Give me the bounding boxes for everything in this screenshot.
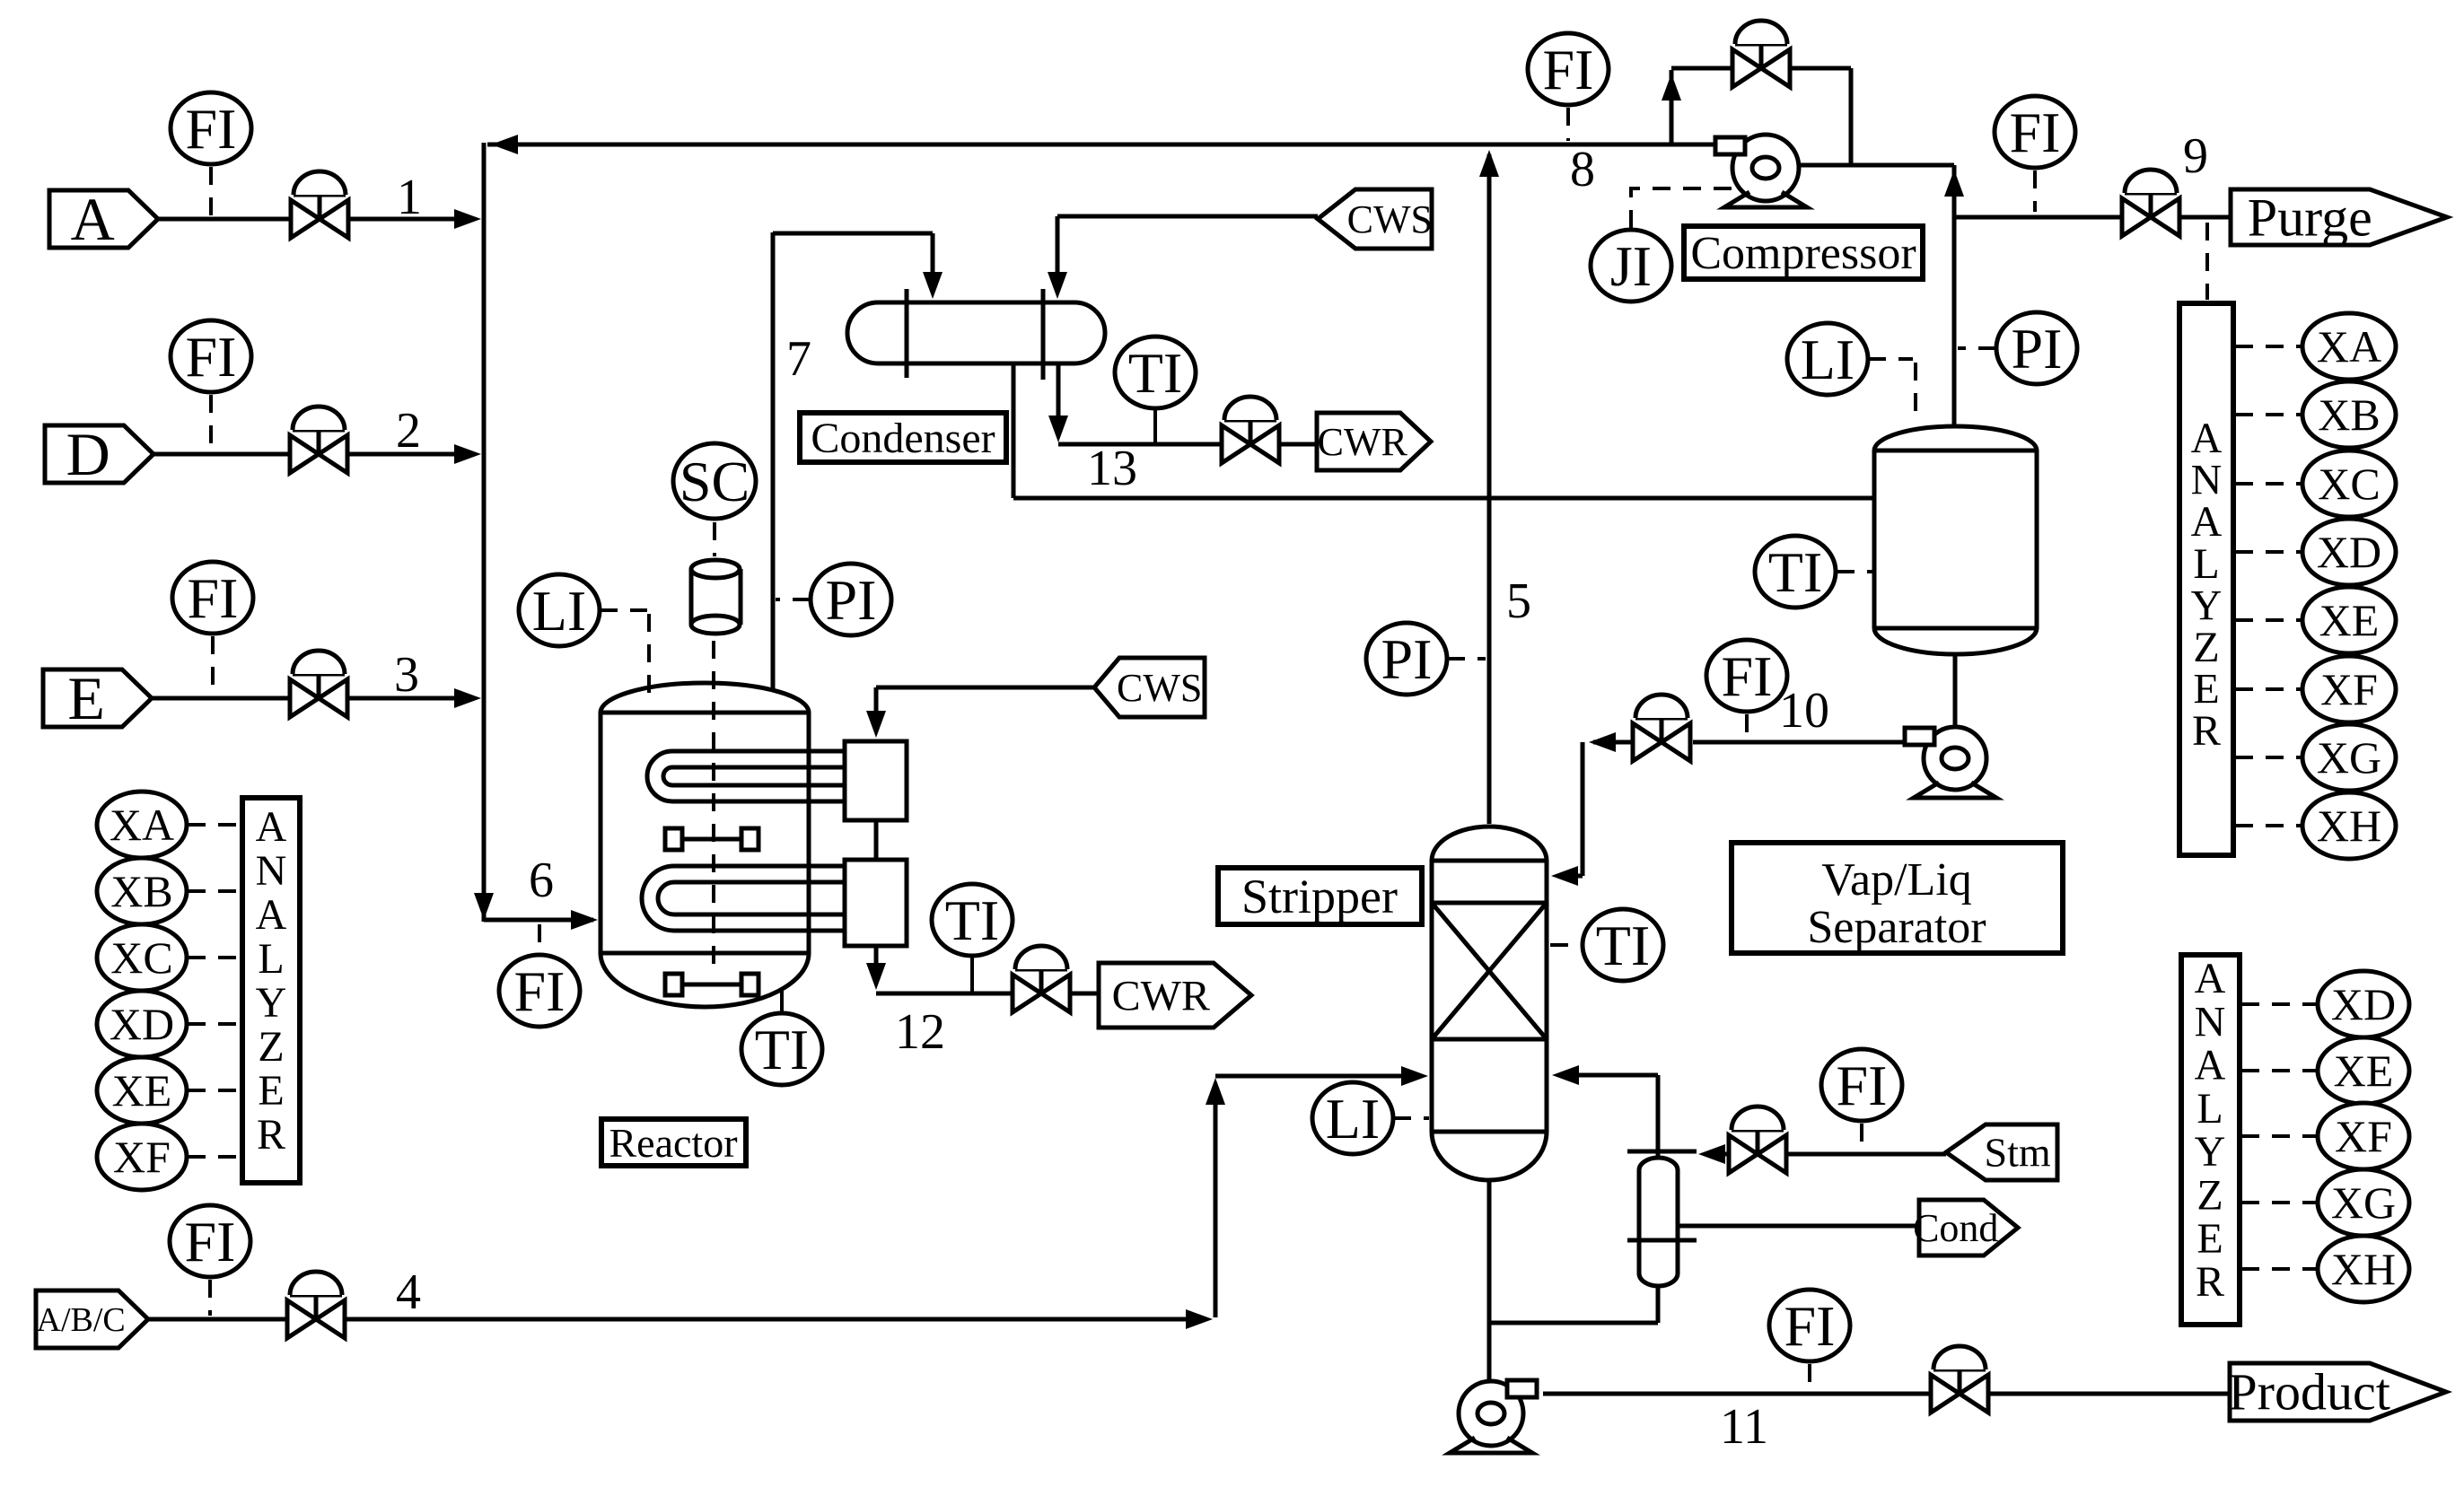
tag Stm <box>1946 1124 2057 1180</box>
svg-text:R: R <box>257 1111 285 1159</box>
svg-text:JI: JI <box>1610 234 1652 298</box>
instrument TI (separator) <box>1755 536 1836 608</box>
reactor cooling box upper <box>845 741 907 820</box>
svg-text:FI: FI <box>185 1210 236 1273</box>
wire SC tick <box>713 522 716 556</box>
wire JI dashes <box>1631 188 1735 228</box>
wire stripper bottoms <box>1487 1180 1492 1381</box>
label box Condenser <box>800 413 1006 462</box>
reactor agitator bottom <box>665 974 758 995</box>
instrument XH (purge analyzer) <box>2302 792 2396 859</box>
svg-text:XH: XH <box>2331 1244 2396 1294</box>
instrument XD (purge analyzer) <box>2302 519 2396 585</box>
bottom analyzer box (product) <box>2181 955 2240 1325</box>
label stream 3 <box>394 647 419 703</box>
wire TI-12 tick <box>970 956 974 992</box>
wire feed A to header <box>349 209 481 229</box>
left analyzer box <box>242 798 300 1183</box>
wire valve to CWR tag <box>1071 992 1099 996</box>
svg-text:FI: FI <box>188 566 239 630</box>
svg-text:A: A <box>2195 1042 2226 1089</box>
wire LI-sep dashes <box>1868 359 1916 422</box>
instrument FI (feed E) <box>172 562 253 634</box>
label stream 9 <box>2183 128 2208 184</box>
wire XB purge dash <box>2235 413 2301 416</box>
wire FI-10 tick <box>1745 714 1749 739</box>
instrument TI (reactor bottom) <box>741 1013 822 1085</box>
wire PI-reactor dashes <box>776 598 811 601</box>
svg-text:XE: XE <box>2319 595 2380 645</box>
svg-text:TI: TI <box>1768 540 1822 604</box>
wire FI-E tick <box>211 636 215 693</box>
wire bypass top left <box>1671 66 1732 71</box>
svg-text:N: N <box>256 847 287 895</box>
compressor symbol <box>1715 135 1807 207</box>
svg-text:XE: XE <box>112 1065 172 1115</box>
svg-text:XB: XB <box>110 866 172 916</box>
svg-text:Vap/Liq: Vap/Liq <box>1821 854 1972 905</box>
svg-text:FI: FI <box>186 97 237 161</box>
wire XE purge dash <box>2235 618 2301 622</box>
instrument XA (purge analyzer) <box>2302 313 2396 380</box>
instrument XB (purge analyzer) <box>2302 381 2396 448</box>
svg-text:XB: XB <box>2318 389 2380 440</box>
svg-text:TI: TI <box>755 1018 809 1081</box>
label stream 6 <box>529 853 554 908</box>
svg-text:3: 3 <box>394 647 419 703</box>
wire XD dash <box>188 1022 241 1026</box>
svg-text:FI: FI <box>1784 1294 1836 1358</box>
svg-text:Reactor: Reactor <box>609 1120 737 1166</box>
svg-text:7: 7 <box>786 331 811 387</box>
svg-text:FI: FI <box>1543 38 1594 101</box>
svg-text:XF: XF <box>2335 1111 2392 1161</box>
svg-text:R: R <box>2192 707 2221 755</box>
svg-text:E: E <box>2197 1215 2223 1263</box>
pump separator bottoms <box>1905 727 1996 798</box>
svg-text:FI: FI <box>1837 1054 1888 1117</box>
pump stripper bottoms <box>1450 1380 1537 1453</box>
wire XG product dash <box>2241 1201 2316 1204</box>
wire XH purge dash <box>2235 824 2301 827</box>
wire valve to CWR tag <box>1280 442 1317 447</box>
svg-text:XD: XD <box>2331 979 2396 1029</box>
svg-text:A: A <box>71 185 115 253</box>
svg-text:4: 4 <box>396 1264 421 1320</box>
instrument FI (feed D) <box>171 320 251 392</box>
svg-text:A: A <box>2195 955 2226 1002</box>
wire compressor discharge <box>1798 163 1954 168</box>
wire stream 4 riser <box>1206 1078 1225 1317</box>
svg-text:CWS: CWS <box>1117 666 1202 710</box>
instrument XD (product analyzer) <box>2318 971 2409 1037</box>
instrument FI (stream 6) <box>499 955 580 1027</box>
svg-text:A: A <box>256 891 287 939</box>
instrument XB (reactor feed analyzer) <box>97 858 187 924</box>
wire feed E to header <box>348 688 481 708</box>
reactor agitator middle <box>665 828 758 850</box>
reactor coil upper <box>647 751 849 801</box>
wire separator vapor riser <box>1944 165 1964 427</box>
tag Cond <box>1913 1200 2018 1255</box>
wire XH product dash <box>2241 1267 2316 1271</box>
wire FI-ABC tick <box>208 1280 212 1316</box>
svg-text:XG: XG <box>2331 1177 2396 1228</box>
valve reactor CWR <box>1013 946 1070 1012</box>
wire reboiler drain <box>1489 1286 1658 1323</box>
svg-text:L: L <box>258 935 284 983</box>
label box Reactor <box>601 1119 746 1166</box>
wire XC purge dash <box>2235 482 2301 486</box>
wire XD product dash <box>2241 1002 2316 1006</box>
instrument FI (feed A/B/C) <box>170 1205 250 1277</box>
label stream 8 <box>1570 142 1595 197</box>
label box Vap/Liq Separator <box>1732 843 2063 953</box>
svg-text:TI: TI <box>945 888 999 952</box>
label box Stripper <box>1218 868 1422 924</box>
wire XB dash <box>188 889 241 893</box>
instrument PI (stream 5) <box>1366 623 1447 695</box>
wire stream 7 top run <box>773 233 943 299</box>
instrument PI (purge) <box>1996 312 2077 384</box>
instrument XE (reactor feed analyzer) <box>97 1057 187 1124</box>
svg-text:FI: FI <box>186 325 237 389</box>
svg-text:A: A <box>2191 498 2223 546</box>
svg-text:1: 1 <box>397 170 422 225</box>
svg-text:Z: Z <box>258 1023 284 1071</box>
instrument SC (agitator speed) <box>673 443 756 519</box>
wire FI-stm tick <box>1860 1124 1863 1150</box>
instrument XF (purge analyzer) <box>2302 656 2396 722</box>
wire stream 11 line <box>1543 1392 1931 1396</box>
wire purge analyzer tick <box>2205 223 2209 300</box>
valve feed A/B/C <box>287 1272 345 1338</box>
tag CWR (condenser) <box>1317 413 1431 470</box>
svg-text:Compressor: Compressor <box>1690 228 1916 279</box>
instrument XE (purge analyzer) <box>2302 587 2396 653</box>
wire Cond line <box>1678 1224 1919 1229</box>
svg-text:LI: LI <box>532 579 586 643</box>
svg-text:XC: XC <box>2318 459 2380 509</box>
label stream 4 <box>396 1264 421 1320</box>
svg-text:N: N <box>2195 998 2226 1045</box>
svg-text:Y: Y <box>2191 582 2223 629</box>
wire valve to Stm tag <box>1787 1152 1946 1157</box>
instrument XF (product analyzer) <box>2318 1103 2409 1169</box>
wire feed E line <box>152 696 289 701</box>
tag CWS (reactor) <box>1094 658 1205 717</box>
vessel stripper <box>1432 827 1547 1180</box>
reactor coil lower <box>642 866 849 931</box>
instrument XE (product analyzer) <box>2318 1037 2409 1104</box>
wire condenser CWR line (13) <box>1048 363 1221 444</box>
wire FI-8 tick <box>1566 108 1570 141</box>
valve feed A <box>291 171 348 238</box>
vessel reactor shell <box>601 683 809 1007</box>
wire XC dash <box>188 956 241 959</box>
svg-text:XD: XD <box>110 999 174 1049</box>
svg-text:D: D <box>66 420 110 488</box>
instrument FI (feed A) <box>171 92 251 164</box>
svg-text:XA: XA <box>2317 321 2381 372</box>
instrument XD (reactor feed analyzer) <box>97 991 187 1057</box>
label stream 5 <box>1506 573 1531 629</box>
wire TI-sep dashes <box>1837 570 1872 573</box>
wire TI-stripper dashes <box>1550 943 1581 947</box>
instrument XA (reactor feed analyzer) <box>97 792 187 858</box>
svg-text:L: L <box>2193 540 2219 588</box>
instrument XC (reactor feed analyzer) <box>97 924 187 991</box>
svg-text:FI: FI <box>2010 101 2061 164</box>
instrument LI (separator) <box>1787 323 1868 395</box>
svg-text:Y: Y <box>2195 1128 2226 1176</box>
tag feed D <box>45 420 153 488</box>
wire reboiler vapor return <box>1552 1065 1658 1159</box>
wire XG purge dash <box>2235 756 2301 759</box>
instrument FI (steam) <box>1821 1049 1902 1121</box>
instrument TI (stripper) <box>1583 909 1663 981</box>
svg-text:E: E <box>2193 666 2219 713</box>
instrument FI (stream 8) <box>1528 33 1609 105</box>
svg-text:Condenser: Condenser <box>811 415 995 462</box>
instrument XC (purge analyzer) <box>2302 451 2396 517</box>
tag feed A <box>49 185 158 253</box>
label stream 1 <box>397 170 422 225</box>
tag Purge <box>2231 188 2447 247</box>
tag Product <box>2228 1363 2446 1422</box>
wire reactor CWR outlet <box>866 946 1013 993</box>
wire stream 10 line <box>1693 740 1903 745</box>
valve condenser CWR <box>1222 397 1279 463</box>
reactor sample cylinder <box>691 560 741 634</box>
svg-text:CWR: CWR <box>1112 972 1210 1019</box>
instrument FI (product) <box>1769 1290 1850 1361</box>
valve stream 10 <box>1633 695 1690 761</box>
wire purge line <box>1953 215 2231 220</box>
reactor cooling box lower <box>845 860 907 946</box>
wire stream 4 long line <box>346 1309 1213 1329</box>
wire XA purge dash <box>2235 345 2301 348</box>
wire FI-A tick <box>209 167 213 215</box>
instrument FI (purge) <box>1995 96 2075 168</box>
instrument TI (condenser CWR) <box>1115 337 1196 408</box>
svg-text:Z: Z <box>2197 1172 2223 1220</box>
svg-text:L: L <box>2197 1085 2223 1133</box>
reactor agitator shaft <box>712 641 715 974</box>
wire XF purge dash <box>2235 687 2301 691</box>
svg-text:Stm: Stm <box>1985 1130 2051 1176</box>
tag feed E <box>43 664 152 732</box>
valve compressor bypass <box>1732 21 1790 87</box>
wire feed ABC line <box>148 1317 286 1322</box>
instrument XH (product analyzer) <box>2318 1236 2409 1302</box>
wire LI-stripper dashes <box>1393 1116 1429 1120</box>
svg-text:Separator: Separator <box>1807 902 1986 953</box>
wire XF product dash <box>2241 1134 2316 1138</box>
instrument LI (reactor) <box>519 574 600 646</box>
wire FI-9 tick <box>2033 171 2037 212</box>
svg-text:PI: PI <box>1381 627 1433 691</box>
svg-text:CWR: CWR <box>1318 420 1408 464</box>
instrument FI (stream 10) <box>1706 640 1787 712</box>
label stream 7 <box>786 331 811 387</box>
wire XA dash <box>188 823 241 827</box>
svg-text:R: R <box>2196 1258 2224 1306</box>
svg-text:Z: Z <box>2193 624 2219 671</box>
instrument JI (compressor) <box>1591 230 1671 302</box>
instrument XF (reactor feed analyzer) <box>97 1124 187 1190</box>
valve Stm <box>1729 1107 1786 1173</box>
wire feed D to header <box>348 444 481 464</box>
svg-text:CWS: CWS <box>1347 197 1433 241</box>
svg-text:LI: LI <box>1326 1087 1380 1150</box>
wire XE dash <box>188 1089 241 1092</box>
svg-text:TI: TI <box>1128 341 1182 405</box>
label stream 11 <box>1720 1399 1768 1455</box>
wire between cooling boxes <box>874 820 879 860</box>
wire stripper feed line <box>1215 1066 1428 1086</box>
instrument XG (product analyzer) <box>2318 1169 2409 1236</box>
label stream 2 <box>396 403 421 459</box>
tag CWS (condenser) <box>1318 189 1433 249</box>
wire CWS to reactor <box>866 687 1094 738</box>
svg-text:9: 9 <box>2183 128 2208 184</box>
svg-text:8: 8 <box>1570 142 1595 197</box>
instrument TI (reactor CW return) <box>932 884 1013 956</box>
wire CWS to condenser <box>1048 216 1318 299</box>
svg-text:2: 2 <box>396 403 421 459</box>
wire bypass left leg <box>1662 70 1681 143</box>
svg-text:XA: XA <box>110 800 174 850</box>
wire PI-purge dashes <box>1958 346 1996 350</box>
svg-text:A: A <box>256 803 287 851</box>
svg-text:Y: Y <box>256 979 287 1027</box>
svg-text:10: 10 <box>1779 683 1829 739</box>
svg-text:Purge: Purge <box>2248 188 2372 247</box>
svg-text:LI: LI <box>1801 328 1855 391</box>
wire feed header vertical <box>482 143 487 922</box>
svg-text:6: 6 <box>529 853 554 908</box>
tag CWR (reactor) <box>1099 963 1251 1028</box>
svg-text:XH: XH <box>2317 800 2381 851</box>
valve product <box>1931 1346 1988 1413</box>
node stream 6 FI tick <box>538 924 541 953</box>
svg-text:Cond: Cond <box>1913 1206 1998 1250</box>
vessel separator <box>1874 426 2037 654</box>
wire bypass top right <box>1791 68 1851 163</box>
valve feed D <box>290 407 347 473</box>
instrument PI (reactor) <box>811 564 891 635</box>
wire condenser process outlet <box>1013 363 1874 498</box>
wire feed D line <box>153 452 289 457</box>
wire TI-13 tick <box>1153 408 1157 442</box>
tag feed A/B/C <box>36 1290 148 1348</box>
svg-text:FI: FI <box>1722 644 1773 708</box>
svg-text:XC: XC <box>110 932 172 983</box>
wire FI-11 tick <box>1808 1364 1811 1390</box>
right analyzer box (purge) <box>2179 303 2233 855</box>
stripper packing X <box>1432 903 1547 1039</box>
svg-text:A/B/C: A/B/C <box>37 1301 126 1339</box>
svg-text:12: 12 <box>895 1004 945 1060</box>
wire FI-D tick <box>209 395 213 449</box>
wire TI-reactor tick <box>780 991 784 1012</box>
label box Compressor <box>1684 226 1923 279</box>
svg-text:XE: XE <box>2334 1045 2394 1096</box>
svg-text:PI: PI <box>2012 317 2063 381</box>
vessel reboiler <box>1639 1158 1678 1286</box>
svg-text:11: 11 <box>1720 1399 1768 1455</box>
svg-text:E: E <box>258 1067 284 1115</box>
label stream 10 <box>1779 683 1829 739</box>
instrument LI (stripper) <box>1312 1082 1393 1154</box>
wire LI-reactor dashes <box>600 610 649 705</box>
svg-text:XD: XD <box>2317 527 2381 577</box>
instrument XG (purge analyzer) <box>2302 724 2396 791</box>
wire valve to Product tag <box>1989 1392 2230 1396</box>
valve purge <box>2122 170 2179 236</box>
wire stream 10 to stripper <box>1551 732 1632 886</box>
wire XD purge dash <box>2235 550 2301 554</box>
wire stream 5 riser <box>1479 150 1499 824</box>
reboiler tube sheets <box>1627 1151 1697 1240</box>
svg-text:13: 13 <box>1087 441 1137 496</box>
svg-text:SC: SC <box>680 450 750 513</box>
svg-text:XG: XG <box>2317 732 2381 783</box>
svg-text:Stripper: Stripper <box>1241 870 1398 923</box>
label stream 12 <box>895 1004 945 1060</box>
svg-text:PI: PI <box>826 568 877 632</box>
wire recycle header (stream 8) y=161 <box>487 135 1716 154</box>
valve feed E <box>290 651 347 717</box>
svg-text:E: E <box>67 664 105 732</box>
svg-text:5: 5 <box>1506 573 1531 629</box>
wire Stm line <box>1698 1144 1728 1164</box>
label stream 13 <box>1087 441 1137 496</box>
wire separator liquid line <box>1953 653 1958 727</box>
vessel condenser shell <box>847 302 1105 363</box>
svg-text:XF: XF <box>113 1132 171 1182</box>
wire feed A line <box>158 217 290 222</box>
svg-text:FI: FI <box>514 959 566 1023</box>
svg-text:Product: Product <box>2228 1363 2389 1422</box>
wire stream 6 into reactor <box>474 893 598 930</box>
svg-text:A: A <box>2191 415 2223 462</box>
svg-text:TI: TI <box>1596 914 1650 977</box>
svg-text:N: N <box>2191 457 2223 504</box>
wire XE product dash <box>2241 1069 2316 1072</box>
wire XF dash <box>188 1155 241 1159</box>
svg-text:XF: XF <box>2320 664 2378 714</box>
condenser tube sheets <box>907 289 1043 380</box>
wire PI-5 dashes <box>1447 657 1486 661</box>
wire stream 7 riser <box>771 232 776 692</box>
